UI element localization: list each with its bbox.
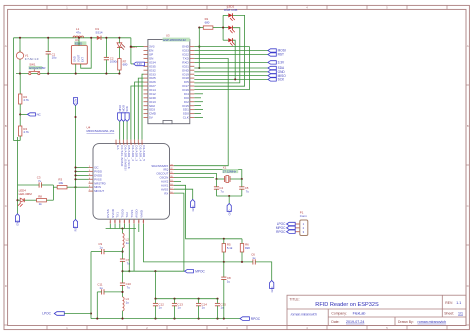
junction U1 GND rail — [75, 73, 77, 75]
svg-text:10u: 10u — [52, 56, 57, 60]
wire to RST flag — [194, 54, 268, 56]
power flag GND crystal — [227, 204, 231, 212]
svg-text:B: B — [5, 124, 7, 128]
power flag 3.3V left — [73, 98, 77, 106]
svg-text:A: A — [5, 44, 7, 48]
pin U3 right IO21 — [190, 65, 195, 67]
pin U3 right GND — [190, 46, 195, 48]
svg-text:680: 680 — [123, 63, 128, 67]
junction NRSTPD — [74, 186, 76, 188]
pin U3 left IO14 — [144, 89, 148, 91]
wire bottom pin stub — [119, 224, 121, 229]
net flag 3.3V — [268, 61, 276, 64]
svg-text:3.3V: 3.3V — [278, 61, 285, 65]
pin U4 left NRSTPD — [89, 182, 94, 184]
svg-text:TX1: TX1 — [116, 212, 120, 218]
title block — [287, 295, 466, 325]
resistor R1 — [203, 26, 213, 29]
svg-text:7u: 7u — [246, 190, 250, 194]
power flag GND LED4 — [15, 214, 19, 222]
svg-text:roman.miranovich: roman.miranovich — [418, 320, 447, 324]
pin U4 left MFOUT — [89, 190, 94, 192]
svg-text:TX2: TX2 — [125, 212, 129, 218]
svg-text:MISO: MISO — [118, 105, 122, 112]
pin U3 left GND — [144, 97, 148, 99]
wire LED2 anode vertical — [222, 15, 224, 40]
op-amp U3 ESP-WROOM-32 module body — [148, 40, 190, 124]
svg-text:VOUT: VOUT — [77, 54, 81, 62]
net flag SDA — [268, 66, 276, 69]
wire U3 to U4 top pin — [135, 82, 144, 140]
net flag RST — [268, 53, 276, 56]
junction LPOC — [90, 312, 92, 314]
regulator U1 — [71, 46, 87, 64]
svg-text:47u: 47u — [76, 30, 81, 34]
net flag MOSI on U4 — [121, 113, 125, 122]
wire bus joins chain — [14, 140, 18, 142]
wire OSCIN stub — [174, 176, 214, 178]
svg-text:REV:: REV: — [445, 301, 453, 305]
svg-text:LPOC: LPOC — [42, 312, 51, 316]
junction C1 bottom — [47, 73, 49, 75]
svg-text:1u: 1u — [227, 279, 231, 283]
capacitor C5 plates — [239, 187, 244, 189]
transistor U4 MFRC522 body — [93, 144, 170, 220]
pin U4 bottom TX2 — [128, 219, 130, 224]
wire to 3V3 flag — [131, 63, 134, 65]
wire VMID to divider row — [144, 224, 253, 262]
wire AUX2 stub — [174, 180, 181, 182]
junction 3V3 pin — [130, 46, 132, 48]
junction TX2 node — [128, 270, 130, 272]
wire IRQ row to C5 node — [174, 170, 242, 179]
pin U3 right CLK — [190, 117, 195, 119]
inductor L1 coil — [73, 36, 84, 38]
pin U3 right SD1 — [190, 109, 195, 111]
LED LED2 element 1 — [228, 13, 235, 20]
pin U3 left 5V — [144, 117, 148, 119]
capacitor C12 plates — [153, 303, 158, 305]
resistor R3 — [57, 186, 67, 189]
svg-text:VMID: VMID — [139, 210, 143, 218]
svg-text:DVSS: DVSS — [106, 209, 110, 218]
wire U3 to U4 top pin — [131, 86, 144, 140]
wire C11 left down — [96, 292, 98, 319]
svg-text:RPOC: RPOC — [251, 317, 261, 321]
svg-text:FlexLab: FlexLab — [353, 312, 366, 316]
svg-text:CLK: CLK — [183, 116, 190, 120]
svg-text:7u: 7u — [127, 285, 131, 289]
junction NC node — [19, 113, 21, 115]
inductor L2 coil — [123, 233, 125, 247]
wire bottom pin stub — [109, 224, 111, 229]
wire IO4 stub — [194, 93, 203, 95]
power flag GND C6 — [270, 281, 274, 289]
pin U3 left SN — [144, 57, 148, 59]
svg-text:GND: GND — [227, 210, 231, 216]
net flag RST — [73, 220, 77, 228]
wire bar to L2 — [122, 229, 124, 234]
junction C4 top — [215, 178, 217, 180]
svg-text:1u: 1u — [126, 241, 130, 245]
capacitor C4 plates — [214, 187, 219, 189]
pin U3 right IO18 — [190, 77, 195, 79]
wire LED2 anode top — [223, 14, 228, 16]
pin U4 right SDA/NSS/RX — [170, 165, 175, 167]
wire R6 bottom lead — [241, 252, 243, 262]
capacitor C15 plates — [215, 303, 220, 305]
diode D1 — [97, 36, 101, 40]
wire R3 to NRSTPD node — [67, 186, 76, 188]
pin U4 bottom AVDD — [138, 219, 140, 224]
svg-text:TVSS: TVSS — [130, 209, 134, 217]
wire R5 bottom lead — [223, 252, 225, 262]
wire R1 left — [199, 27, 203, 29]
pin U3 right IO19 — [190, 73, 195, 75]
wire LPOC to node — [64, 313, 91, 315]
pin P1 3 RPOC — [295, 231, 300, 233]
wire bottom pin stub — [114, 224, 116, 229]
svg-text:GND: GND — [16, 220, 20, 226]
wire R4 bottom — [19, 136, 21, 141]
wire C8 to rail — [223, 280, 225, 319]
svg-text:MFOUT: MFOUT — [94, 189, 104, 193]
svg-text:820: 820 — [245, 246, 250, 250]
svg-text:roman.miranovich: roman.miranovich — [291, 312, 317, 316]
pin U4 top D3/ADR_3 — [134, 140, 136, 144]
wire IO15 stub — [194, 105, 201, 107]
wire bottom RF rail — [91, 318, 240, 320]
junction LED4 node — [16, 199, 18, 201]
junction V1 rail — [19, 37, 21, 39]
wire SD0 stub — [194, 113, 201, 115]
pin U3 right RXD — [190, 61, 195, 63]
net flag NC — [27, 113, 35, 116]
pin U4 left PVSS — [89, 178, 94, 180]
frame ticks top/bottom — [46, 5, 48, 9]
svg-text:1u: 1u — [252, 256, 256, 260]
pin U3 right GND — [190, 69, 195, 71]
svg-text:7u: 7u — [220, 190, 224, 194]
wire C10 to L3 — [122, 285, 124, 297]
svg-text:MPOC: MPOC — [195, 269, 205, 273]
wire TXD to RC522 SDA — [174, 58, 228, 165]
svg-text:1u: 1u — [99, 246, 103, 250]
wire AUX1 to divider rail — [174, 185, 242, 239]
pin U4 bottom TX1 — [119, 219, 121, 224]
capacitor C8 plates — [221, 277, 226, 279]
svg-text:Conn: Conn — [300, 214, 307, 218]
resistor R4 — [19, 126, 22, 136]
wire to 3.3V flag — [194, 61, 268, 63]
pin U4 bottom VMID — [143, 219, 145, 224]
svg-text:EXT: EXT — [81, 57, 85, 62]
wire MPOC row — [123, 270, 185, 272]
wire RX down to MPOC — [174, 193, 184, 271]
pin P1 1 LPOC — [295, 223, 300, 225]
wire TVSS down — [133, 224, 135, 272]
junction blue cathode — [234, 78, 236, 80]
LED LED2 element 2 — [228, 26, 235, 33]
capacitor C14 plates — [196, 303, 201, 305]
svg-text:EA: EA — [116, 145, 120, 149]
wire top power rail — [14, 37, 131, 39]
power flag GND AVSS — [191, 200, 195, 208]
wire bottom pin bar — [106, 228, 136, 230]
svg-text:RX: RX — [164, 191, 168, 195]
svg-text:4.7k: 4.7k — [23, 98, 29, 102]
connector P1 — [300, 220, 308, 236]
wire R5 top lead — [223, 239, 225, 244]
LED LED4 — [18, 198, 24, 206]
pin U3 left SD3 — [144, 109, 148, 111]
pin U4 left DVDD — [89, 174, 94, 176]
pin U3 left IO35 — [144, 65, 148, 67]
net flag LPOC — [54, 312, 64, 316]
junction 3.3V bus — [74, 116, 76, 118]
svg-text:5.1k: 5.1k — [227, 246, 233, 250]
capacitor C9 plates — [102, 249, 104, 254]
svg-text:Date:: Date: — [331, 320, 339, 324]
wire to NRSTPD pin — [76, 186, 89, 188]
wire OSCOUT to crystal — [174, 174, 217, 180]
svg-text:1/1: 1/1 — [458, 312, 463, 316]
pin U4 bottom TVDD — [124, 219, 126, 224]
pin P1 2 MPOC — [295, 227, 300, 229]
wire 3.3V to PVSS — [76, 178, 89, 180]
net flag RPOC at P1 — [287, 230, 296, 233]
wire R6 top lead — [241, 239, 243, 244]
wire R1 feed down — [198, 28, 200, 68]
pin U4 top D1/ADR_5 — [141, 140, 143, 144]
wire AVSS to GND — [174, 189, 193, 199]
wire C9 left down — [90, 252, 92, 319]
wire L3 to rail — [122, 311, 124, 319]
wire U3 to U4 top pin — [142, 74, 144, 139]
net flag SCK — [268, 78, 276, 81]
wire rail to 3V3 bus — [130, 38, 132, 64]
pin U4 top D5/ADR_1/SCK — [126, 140, 128, 144]
svg-text:RPOC: RPOC — [276, 230, 286, 234]
wire LED2 red cathode to IO17 — [194, 15, 244, 86]
junction R1-GND row — [198, 46, 200, 48]
net flag MPOC — [185, 270, 194, 273]
pin U3 right IO15 — [190, 105, 195, 107]
pin U4 top D4/ADR_2 — [130, 140, 132, 144]
junction C8 top — [223, 261, 225, 263]
wire L2 to C7 — [122, 248, 124, 259]
junction MPOC branch — [154, 270, 156, 272]
resistor R8 — [37, 199, 47, 202]
junction R1-SDA row — [198, 67, 200, 69]
pin U3 right TXD — [190, 57, 195, 59]
capacitor C2 plates — [104, 57, 109, 59]
junction U1 VIN rail — [78, 37, 80, 39]
svg-text:MFRC52202HN1,151: MFRC52202HN1,151 — [87, 129, 115, 133]
voltage source V1 — [16, 50, 23, 59]
wire C4-C5 bottom — [217, 195, 242, 197]
wire to MOSI flag — [194, 50, 268, 52]
pin U3 left SD2 — [144, 105, 148, 107]
capacitor C3 plates — [39, 182, 41, 187]
junction V1-SW1 — [19, 73, 21, 75]
wire bottom pin stub — [124, 224, 126, 229]
junction C2 top — [105, 37, 107, 39]
svg-text:RGB COB: RGB COB — [224, 8, 237, 12]
wire bottom power rail — [16, 73, 119, 75]
capacitor C11 plates — [102, 289, 104, 294]
wire LED4 to R8 — [24, 199, 36, 201]
wire R4 to node — [18, 140, 21, 142]
wire IO0 stub — [194, 97, 201, 99]
wire GND row U loop — [194, 47, 249, 90]
wire to MISO flag — [194, 75, 268, 77]
svg-text:D2/ADR_4: D2/ADR_4 — [138, 145, 142, 161]
wire to R2 — [19, 74, 21, 94]
pin U3 left 3V3 — [144, 46, 148, 48]
wire CLK stub — [194, 116, 203, 118]
junction C5 top — [241, 178, 243, 180]
capacitor C7 plates — [120, 259, 125, 261]
pin U4 left MFIN — [89, 186, 94, 188]
pin U4 left I2C — [89, 167, 94, 169]
wire to SDA flag — [194, 67, 268, 69]
svg-text:1u: 1u — [159, 306, 163, 310]
pin U3 left IO13 — [144, 101, 148, 103]
svg-text:SCK: SCK — [278, 78, 285, 82]
net flag MISO — [268, 74, 276, 77]
junction C11 node — [121, 291, 123, 293]
wire MPOC to cap bank — [154, 271, 156, 299]
svg-text:3.3V: 3.3V — [137, 63, 142, 66]
inductor L3 coil — [123, 297, 125, 311]
svg-text:D4/ADR_2: D4/ADR_2 — [131, 145, 135, 161]
svg-text:SS14: SS14 — [95, 30, 102, 34]
pin U3 right IO2 — [190, 101, 195, 103]
svg-text:D7/SCL/MISO: D7/SCL/MISO — [120, 145, 124, 167]
pin U4 right IRQ — [170, 169, 175, 171]
wire C6 to GND — [255, 262, 271, 281]
wire 3.3V to DVDD — [76, 174, 89, 176]
svg-text:TITLE:: TITLE: — [289, 297, 299, 301]
wire to LED4 — [18, 199, 21, 201]
svg-text:R8: R8 — [38, 194, 42, 198]
wire to SCK flag — [194, 78, 268, 80]
wire LED4 left node — [17, 137, 19, 214]
svg-text:27.12MHz: 27.12MHz — [223, 169, 237, 173]
svg-text:1000u: 1000u — [110, 60, 118, 64]
wire LED2 blue cathode to SCK row — [232, 40, 235, 79]
svg-text:1k: 1k — [39, 202, 43, 206]
wire AVDD stub — [138, 224, 140, 232]
net flag MPOC at P1 — [287, 226, 296, 229]
junction C9 node — [121, 251, 123, 253]
wire U3 to U4 top pin — [138, 78, 143, 140]
wire LED1 anode — [118, 38, 120, 43]
wire NRSTPD to RST flag — [75, 187, 77, 219]
junction C7-C10 node — [121, 270, 123, 272]
svg-text:1u: 1u — [99, 286, 103, 290]
wire U1 GND down — [75, 64, 77, 74]
svg-text:D6/ADR_0/MOSI: D6/ADR_0/MOSI — [124, 145, 128, 170]
svg-text:7u: 7u — [38, 179, 42, 183]
wire crystal left lead — [217, 178, 225, 180]
net flag MISO on U4 — [118, 113, 122, 122]
LED LED2 element 3 — [228, 38, 235, 46]
pin U4 left PVDD — [89, 170, 94, 172]
pin U3 left SP — [144, 54, 148, 56]
pin U3 left IO26 — [144, 81, 148, 83]
pin U4 right OSCOUT — [170, 173, 175, 175]
wire U1 VOUT to rail — [81, 38, 92, 68]
svg-text:RFID Reader on ESP32S: RFID Reader on ESP32S — [315, 302, 379, 308]
resistor R5 — [222, 244, 225, 253]
svg-text:GND: GND — [191, 206, 195, 212]
wire U1 VIN — [78, 38, 80, 46]
svg-text:D3/ADR_3: D3/ADR_3 — [135, 145, 139, 161]
capacitor C6 plates — [253, 259, 255, 264]
svg-text:MOSI: MOSI — [122, 105, 126, 112]
pin U3 right IO23 — [190, 50, 195, 52]
svg-text:680: 680 — [205, 21, 210, 25]
svg-text:4.7k: 4.7k — [23, 130, 29, 134]
junction C2 bottom — [105, 73, 107, 75]
net flag 3.3V at EN bus — [134, 62, 145, 66]
wire cap bank top rail — [156, 298, 218, 300]
pin U4 top D2/ADR_4 — [137, 140, 139, 144]
pin U4 right AVSS — [170, 188, 175, 190]
pin U3 right IO0 — [190, 97, 195, 99]
wire IO2 stub — [194, 101, 203, 103]
pin U3 right IO22 — [190, 54, 195, 56]
wire 3.3V bus down — [75, 106, 77, 188]
pin U4 top D7/SCL/MISO — [119, 140, 121, 144]
wire R2-R4 — [19, 104, 21, 126]
pin U3 left IO27 — [144, 85, 148, 87]
wire to GND flag — [194, 71, 268, 73]
net flag RPOC — [240, 317, 249, 321]
capacitor C1 plates — [46, 52, 51, 54]
svg-text:GND: GND — [270, 287, 274, 293]
pin U3 right SD0 — [190, 113, 195, 115]
svg-text:RST: RST — [74, 226, 78, 232]
junction LED2 anode — [222, 27, 224, 29]
junction L2 top — [121, 227, 123, 229]
svg-text:A: A — [467, 44, 469, 48]
switch SW1 — [29, 70, 40, 75]
svg-text:3.7 AC 1.0: 3.7 AC 1.0 — [25, 57, 39, 61]
svg-text:1u: 1u — [126, 301, 130, 305]
wire LED2 green cathode to IO5 — [194, 28, 240, 83]
net flag GND — [268, 70, 276, 73]
pin U3 left IO33 — [144, 73, 148, 75]
wire C3-R8 node vertical — [52, 185, 54, 200]
wire SD1 stub — [194, 109, 203, 111]
svg-text:D1/ADR_5: D1/ADR_5 — [142, 145, 146, 161]
svg-text:Drawn By:: Drawn By: — [398, 320, 414, 324]
svg-text:B: B — [467, 124, 469, 128]
pin U4 right RX — [170, 192, 175, 194]
resistor R6 — [240, 244, 243, 253]
pin U4 top D6/ADR_0/MOSI — [122, 140, 124, 144]
wire R7 to rail — [118, 70, 120, 74]
pin U4 right OSCIN — [170, 177, 175, 179]
crystal X1 — [225, 176, 230, 183]
svg-text:Company:: Company: — [331, 312, 347, 316]
svg-text:10k: 10k — [58, 181, 63, 185]
svg-text:RST: RST — [278, 53, 284, 57]
svg-text:1u: 1u — [202, 306, 206, 310]
